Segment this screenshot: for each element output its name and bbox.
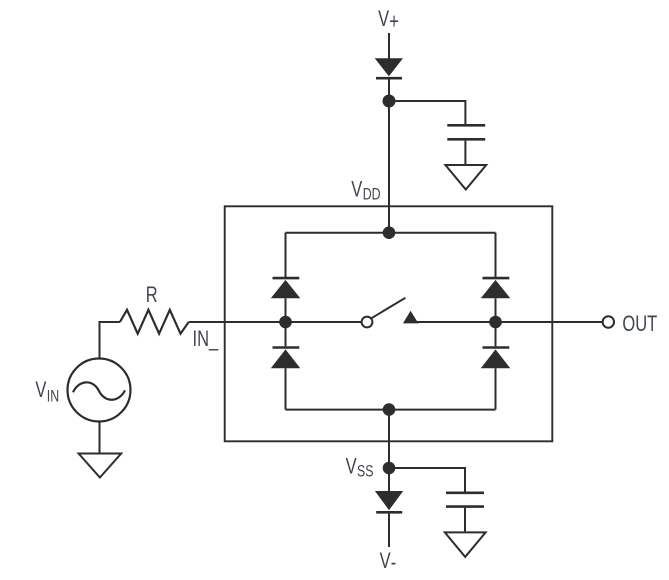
wire diode to V- [388,514,390,547]
wire VDD node into IC [388,101,390,233]
source VIN (AC source circle) [68,359,131,422]
source VIN sine wave [73,382,125,399]
capacitor C2 (V- bypass) [446,493,484,507]
node OUT junction dot [489,316,502,329]
value label R [146,283,158,308]
diode left upper (IN to VDD clamp) [271,278,301,298]
wire VIN source to resistor [100,322,120,359]
node VDD junction dot [383,95,396,108]
svg-text:V: V [35,378,46,403]
node V- label [380,549,397,575]
switch S1 lever [371,298,405,319]
wire right branch to OUT node [495,298,497,322]
diode D1 (V+ clamp, pointing down) [375,58,403,78]
svg-text:R: R [146,283,158,308]
node VSS junction dot [383,462,396,475]
svg-text:IN_: IN_ [193,327,220,352]
node IN_ label [193,327,220,352]
svg-text:V: V [380,549,391,574]
wire IN line into switch [189,321,362,323]
wire switch to OUT terminal [412,321,603,323]
ground (source) [79,454,122,478]
svg-text:V: V [378,7,389,32]
node inner VDD junction dot [383,226,396,239]
wire left branch lower segment [285,368,287,409]
svg-text:-: - [391,550,397,575]
diode right upper (OUT to VDD clamp) [481,278,511,298]
svg-text:V: V [351,177,362,202]
wire inner VSS rail to VSS node [388,410,390,491]
wire diode to VDD node [388,80,390,102]
node inner VSS junction dot [383,403,396,416]
wire OUT node to lower diode [495,322,497,346]
svg-text:DD: DD [363,186,381,204]
terminal OUT (open circle) [603,316,614,327]
node VIN label [35,378,59,406]
node OUT label [622,312,657,337]
ground (bottom right) [445,532,486,557]
svg-text:V: V [346,454,357,479]
diode D2 (V- clamp, pointing down) [375,491,403,512]
svg-text:SS: SS [357,463,374,481]
wire left branch upper segment [285,233,287,277]
wire right branch upper segment [495,233,497,277]
wire VDD node to bypass capacitor [389,101,465,124]
node VDD label [351,177,380,204]
ground (top right) [445,165,486,190]
wire internal VDD rail (inner box top) [286,232,496,234]
svg-text:+: + [389,9,399,34]
wire VIN to ground [99,422,101,453]
wire IN node to lower diode [285,322,287,346]
node IN junction dot [279,316,292,329]
capacitor C1 (V+ bypass) [447,125,485,139]
wire internal VSS rail (inner box bottom) [286,409,496,411]
svg-text:OUT: OUT [622,312,657,337]
wire capacitor to ground [464,508,466,532]
diode left lower (VSS to IN clamp) [271,348,301,369]
wire right branch lower segment [495,368,497,409]
switch S1 pole (open circle) [362,317,373,328]
switch S1 throw contact (solid triangle) [403,311,419,324]
node V+ label [378,7,399,34]
wire VSS node to bypass capacitor [389,468,465,492]
IC outer box [225,206,553,441]
node VSS label [346,454,374,481]
svg-text:IN: IN [47,388,59,406]
wire capacitor to ground [464,141,466,164]
diode right lower (VSS to OUT clamp) [481,348,511,369]
wire left branch to IN node [285,298,287,322]
resistor R [120,310,189,334]
wire V+ to diode [388,33,390,59]
